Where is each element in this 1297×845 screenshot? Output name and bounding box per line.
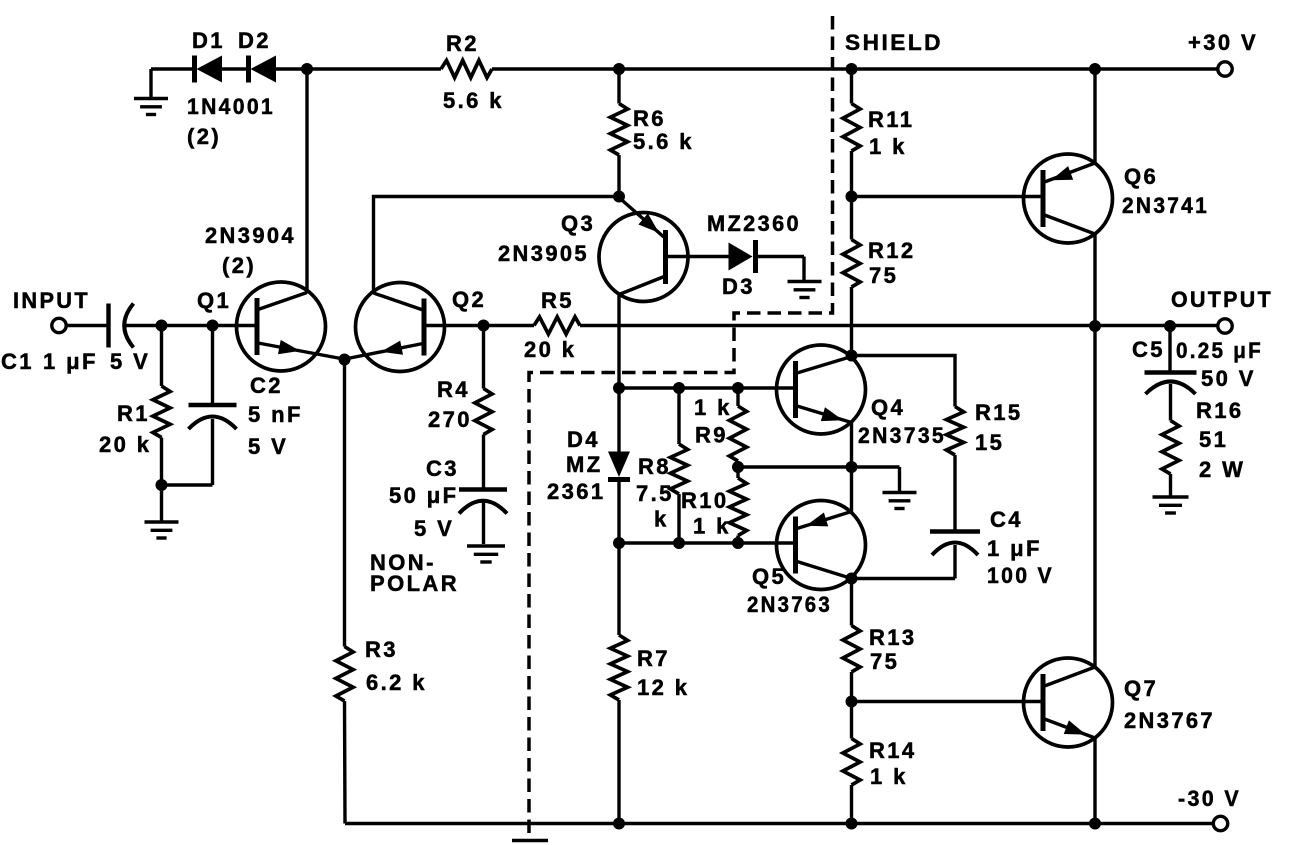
svg-text:Q1: Q1 <box>197 288 231 313</box>
wire <box>125 324 258 327</box>
svg-text:1 k: 1 k <box>869 134 907 159</box>
resistor R14 <box>843 702 917 824</box>
svg-text:D1: D1 <box>192 28 225 53</box>
node <box>613 191 625 203</box>
svg-text:R10: R10 <box>681 488 729 513</box>
terminal -30V <box>1178 786 1241 831</box>
svg-text:20 k: 20 k <box>524 337 576 362</box>
resistor R1 <box>99 326 170 486</box>
wire <box>617 295 620 389</box>
transistor Q2 <box>345 283 486 372</box>
ground <box>145 485 179 538</box>
svg-text:R3: R3 <box>365 637 398 662</box>
node <box>846 63 858 75</box>
svg-text:(2): (2) <box>187 124 221 149</box>
resistor R12 <box>843 197 916 356</box>
resistor R16 <box>1162 398 1245 496</box>
node <box>613 63 625 75</box>
svg-text:R5: R5 <box>541 288 574 313</box>
node <box>673 382 685 394</box>
svg-text:C3: C3 <box>426 456 459 481</box>
svg-text:R13: R13 <box>869 625 917 650</box>
svg-text:R8: R8 <box>638 454 671 479</box>
shield dashed boundary <box>529 16 833 834</box>
node <box>156 479 168 491</box>
resistor R5 <box>524 288 580 362</box>
resistor R13 <box>843 579 917 702</box>
svg-text:0.25 μF: 0.25 μF <box>1176 338 1263 363</box>
svg-text:(2): (2) <box>222 253 256 278</box>
svg-text:1 k: 1 k <box>870 764 908 789</box>
node <box>846 818 858 830</box>
transistor Q7 <box>1024 658 1216 747</box>
ground (shield) <box>512 839 548 842</box>
label NON-POLAR <box>370 550 459 596</box>
node <box>846 573 858 585</box>
terminal OUTPUT <box>1171 287 1273 333</box>
svg-text:50 V: 50 V <box>1201 366 1256 391</box>
wire <box>619 386 796 389</box>
wire <box>276 67 441 70</box>
transistor Q5 <box>747 501 866 618</box>
svg-text:R14: R14 <box>869 738 917 763</box>
wire <box>1093 69 1096 163</box>
svg-text:Q4: Q4 <box>871 395 905 420</box>
svg-text:20 k: 20 k <box>99 432 151 457</box>
svg-text:2N3905: 2N3905 <box>498 241 589 266</box>
wire <box>738 465 852 468</box>
capacitor C3 <box>389 435 507 545</box>
node <box>339 354 351 366</box>
svg-text:75: 75 <box>869 263 898 288</box>
wire <box>619 541 796 544</box>
svg-text:R7: R7 <box>637 646 670 671</box>
ground <box>1153 497 1189 513</box>
svg-text:C2: C2 <box>250 373 283 398</box>
wire <box>852 195 1044 198</box>
ground <box>852 467 917 509</box>
node <box>732 461 744 473</box>
svg-text:75: 75 <box>870 649 899 674</box>
diode D2 <box>238 28 276 83</box>
label 2N3904 (2) <box>205 223 296 278</box>
diode D3 <box>707 211 804 299</box>
svg-text:2N3904: 2N3904 <box>205 223 296 248</box>
svg-text:C5: C5 <box>1132 337 1165 362</box>
ground <box>788 257 822 298</box>
node <box>846 696 858 708</box>
svg-text:5.6 k: 5.6 k <box>443 88 504 113</box>
capacitor C1 <box>1 304 150 375</box>
svg-text:2361: 2361 <box>547 479 606 504</box>
node <box>1089 63 1101 75</box>
capacitor C2 <box>162 326 303 486</box>
diode D4 <box>547 388 630 543</box>
svg-text:2N3763: 2N3763 <box>747 592 832 617</box>
node <box>732 537 744 549</box>
svg-text:2N3767: 2N3767 <box>1124 708 1215 733</box>
node <box>613 537 625 549</box>
node <box>478 320 490 332</box>
svg-text:2 W: 2 W <box>1199 457 1245 482</box>
svg-text:SHIELD: SHIELD <box>845 30 943 55</box>
svg-text:POLAR: POLAR <box>370 571 459 596</box>
terminal +30V <box>1188 30 1258 76</box>
node <box>207 320 219 332</box>
resistor R15 <box>852 356 1023 531</box>
resistor R2 <box>441 31 504 113</box>
resistor R6 <box>610 69 694 197</box>
svg-text:D3: D3 <box>722 274 755 299</box>
wire <box>305 69 308 293</box>
resistor R7 <box>610 543 689 824</box>
net SHIELD <box>845 30 943 55</box>
ground <box>467 546 505 562</box>
svg-text:R15: R15 <box>975 400 1023 425</box>
svg-text:6.2 k: 6.2 k <box>366 670 427 695</box>
node <box>1164 320 1176 332</box>
svg-text:D2: D2 <box>238 28 271 53</box>
node <box>613 818 625 830</box>
terminal INPUT <box>13 288 90 333</box>
svg-text:+30 V: +30 V <box>1188 30 1258 55</box>
svg-text:R1: R1 <box>117 401 150 426</box>
svg-text:OUTPUT: OUTPUT <box>1171 287 1273 312</box>
node <box>156 320 168 332</box>
svg-text:R9: R9 <box>695 423 728 448</box>
transistor Q6 <box>1024 154 1210 243</box>
svg-text:R11: R11 <box>868 107 914 132</box>
ground <box>134 69 168 115</box>
node <box>1089 818 1101 830</box>
svg-text:100 V: 100 V <box>987 563 1054 588</box>
wire <box>345 822 1214 825</box>
svg-text:5 nF: 5 nF <box>248 402 303 427</box>
transistor Q4 <box>777 345 947 448</box>
svg-text:1 k: 1 k <box>693 514 731 539</box>
node <box>846 350 858 362</box>
svg-text:-30 V: -30 V <box>1178 786 1241 811</box>
svg-text:INPUT: INPUT <box>13 288 90 313</box>
resistor R11 <box>843 69 914 197</box>
wire <box>222 67 247 70</box>
wire <box>151 67 193 70</box>
wire <box>1093 326 1096 668</box>
resistor R10 <box>681 467 747 543</box>
svg-text:12 k: 12 k <box>637 675 689 700</box>
transistor Q1 <box>197 282 344 371</box>
svg-text:Q6: Q6 <box>1124 164 1158 189</box>
resistor R8 <box>636 388 688 543</box>
svg-text:C1: C1 <box>1 349 34 374</box>
svg-text:k: k <box>654 507 669 532</box>
svg-text:1N4001: 1N4001 <box>187 94 275 119</box>
svg-text:D4: D4 <box>567 427 600 452</box>
capacitor C4 <box>852 507 1055 588</box>
svg-text:R6: R6 <box>633 106 666 131</box>
svg-text:R12: R12 <box>868 238 916 263</box>
svg-text:1 k: 1 k <box>694 395 732 420</box>
svg-text:5 V: 5 V <box>248 434 288 459</box>
wire <box>374 197 620 294</box>
wire <box>492 67 1218 70</box>
svg-text:Q2: Q2 <box>452 287 486 312</box>
node <box>732 382 744 394</box>
svg-text:R16: R16 <box>1196 398 1244 423</box>
node <box>673 537 685 549</box>
wire <box>424 324 534 327</box>
wire <box>1093 234 1096 326</box>
svg-text:5 V: 5 V <box>110 349 150 374</box>
svg-text:MZ2360: MZ2360 <box>707 211 801 236</box>
wire <box>852 700 1044 703</box>
svg-text:51: 51 <box>1199 427 1228 452</box>
svg-text:2N3741: 2N3741 <box>1122 193 1209 218</box>
resistor R9 <box>694 388 747 467</box>
node A <box>301 63 313 75</box>
svg-text:5 V: 5 V <box>414 516 454 541</box>
svg-text:15: 15 <box>975 430 1004 455</box>
capacitor C5 <box>1132 326 1263 421</box>
svg-text:1 μF: 1 μF <box>987 536 1042 561</box>
wire <box>66 324 108 327</box>
node <box>846 191 858 203</box>
wire <box>850 423 853 512</box>
node <box>613 382 625 394</box>
svg-text:R4: R4 <box>437 377 470 402</box>
wire <box>580 324 1218 327</box>
transistor Q3 <box>498 198 729 302</box>
label 1N4001 (2) <box>187 94 275 149</box>
svg-text:Q7: Q7 <box>1124 676 1158 701</box>
resistor R4 <box>428 326 492 435</box>
svg-text:5.6 k: 5.6 k <box>633 129 694 154</box>
svg-text:7.5: 7.5 <box>636 481 674 506</box>
svg-text:Q5: Q5 <box>752 564 786 589</box>
svg-text:270: 270 <box>428 407 472 432</box>
resistor R3 <box>336 360 427 824</box>
diode D1 <box>192 28 225 83</box>
node <box>1089 320 1101 332</box>
svg-text:R2: R2 <box>446 31 479 56</box>
svg-text:1 μF: 1 μF <box>43 349 98 374</box>
wire <box>1093 738 1096 824</box>
svg-text:50 μF: 50 μF <box>389 483 458 508</box>
svg-text:C4: C4 <box>990 507 1023 532</box>
svg-text:2N3735: 2N3735 <box>858 423 946 448</box>
node <box>846 461 858 473</box>
svg-text:Q3: Q3 <box>561 211 595 236</box>
svg-text:MZ: MZ <box>566 452 603 477</box>
